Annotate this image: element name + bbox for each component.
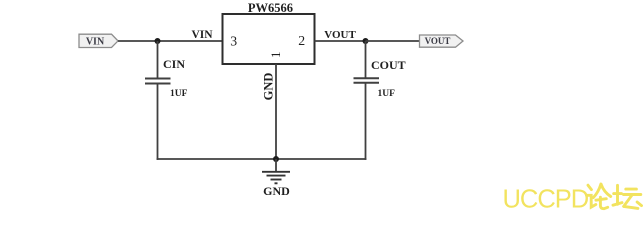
svg-text:2: 2 <box>298 33 305 48</box>
svg-text:GND: GND <box>262 73 276 101</box>
capacitor C1 CIN top lead <box>157 41 159 78</box>
capacitor C2 COUT plates <box>354 77 380 79</box>
watermark CJK 论 <box>587 184 611 209</box>
svg-text:VOUT: VOUT <box>324 29 356 41</box>
junction dot C (ground node) <box>273 156 279 162</box>
svg-text:GND: GND <box>263 184 290 198</box>
port VIN <box>79 34 118 47</box>
wire VIN port to junction <box>118 40 158 42</box>
svg-text:PW6566: PW6566 <box>248 1 293 15</box>
capacitor C1 CIN bottom lead <box>157 84 159 160</box>
junction dot A (VIN node) <box>155 38 161 44</box>
wire GND pin lead <box>275 64 277 159</box>
svg-text:COUT: COUT <box>371 58 406 72</box>
capacitor C2 COUT top lead <box>365 41 367 78</box>
wire bottom rail <box>157 158 367 160</box>
svg-text:3: 3 <box>230 34 237 49</box>
wire junction to pin 3 <box>158 40 223 42</box>
port VOUT <box>420 35 464 47</box>
ground stub <box>275 159 277 172</box>
op IC U1 PW6566 box <box>223 14 315 64</box>
svg-text:1UF: 1UF <box>170 89 188 99</box>
svg-text:CIN: CIN <box>163 57 185 71</box>
wire junction to VOUT port <box>366 40 420 42</box>
wire pin 2 to junction <box>315 40 366 42</box>
svg-text:VIN: VIN <box>191 29 213 41</box>
svg-text:1: 1 <box>268 52 283 59</box>
svg-text:VIN: VIN <box>86 36 105 47</box>
svg-text:UCCPD: UCCPD <box>503 186 589 212</box>
watermark CJK 坛 <box>613 185 642 208</box>
svg-text:1UF: 1UF <box>378 89 396 99</box>
capacitor C2 COUT bottom lead <box>365 83 367 160</box>
capacitor C1 CIN plates <box>145 78 171 80</box>
svg-text:VOUT: VOUT <box>425 36 451 46</box>
junction dot B (VOUT node) <box>363 38 369 44</box>
ground symbol <box>262 172 290 184</box>
